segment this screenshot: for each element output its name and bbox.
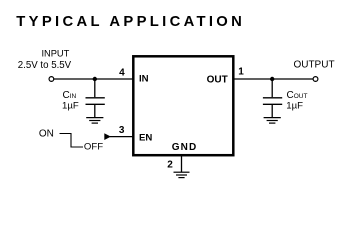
svg-text:IN: IN	[139, 74, 149, 85]
ground at GND pin	[174, 172, 190, 177]
svg-text:1µF: 1µF	[62, 101, 79, 112]
svg-text:TYPICAL APPLICATION: TYPICAL APPLICATION	[16, 14, 242, 30]
wire OUT pin to output terminal	[234, 78, 313, 80]
svg-text:2: 2	[167, 159, 173, 170]
svg-text:3: 3	[119, 125, 125, 136]
op-amp U1 regulator box	[133, 56, 233, 155]
svg-text:ON: ON	[39, 129, 54, 140]
svg-text:EN: EN	[139, 133, 152, 144]
svg-text:2.5V to 5.5V: 2.5V to 5.5V	[18, 60, 72, 71]
capacitor C2 COUT upper lead	[271, 79, 273, 97]
svg-text:OUTPUT: OUTPUT	[293, 60, 334, 71]
capacitor C2 COUT lower lead	[271, 105, 273, 118]
svg-text:1: 1	[238, 66, 244, 77]
ground under COUT	[264, 118, 281, 124]
node junction dot at CIN	[93, 77, 97, 81]
node OUTPUT terminal	[313, 77, 318, 82]
svg-text:OUT: OUT	[207, 75, 228, 86]
svg-text:COUT: COUT	[287, 90, 308, 101]
svg-text:GND: GND	[172, 142, 197, 153]
capacitor C1 CIN bottom plate	[86, 103, 105, 105]
capacitor C1 CIN lower lead	[94, 105, 96, 118]
ground under CIN	[86, 118, 103, 124]
capacitor C1 CIN top plate	[86, 97, 105, 99]
svg-text:4: 4	[119, 68, 125, 79]
wire input to IN pin	[54, 78, 133, 80]
svg-text:1µF: 1µF	[286, 101, 303, 112]
svg-text:OFF: OFF	[84, 141, 103, 152]
svg-text:INPUT: INPUT	[41, 49, 69, 59]
wire GND pin lead	[181, 156, 183, 173]
node INPUT terminal	[49, 77, 54, 82]
capacitor C2 COUT bottom plate	[263, 103, 282, 105]
wire ON/OFF step waveform	[60, 134, 84, 148]
capacitor C1 CIN upper lead	[94, 79, 96, 97]
node junction dot at COUT	[270, 77, 274, 81]
svg-text:CIN: CIN	[63, 90, 77, 101]
wire arrow to EN pin	[110, 136, 133, 138]
arrow into EN	[104, 133, 111, 140]
capacitor C2 COUT top plate	[263, 97, 282, 99]
